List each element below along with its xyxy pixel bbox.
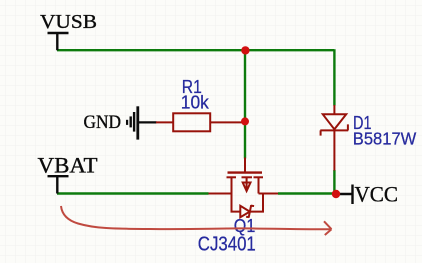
schottky cathode bar — [320, 124, 348, 135]
gate pin — [244, 158, 246, 173]
gate plate — [228, 171, 263, 173]
svg-text:B5817W: B5817W — [353, 128, 417, 148]
wire VBAT rail — [57, 192, 209, 194]
annotation current-path arrow — [61, 206, 332, 235]
channel bar middle — [242, 176, 253, 178]
wire VUSB rail — [57, 49, 334, 51]
node junction at VCC — [332, 190, 340, 198]
svg-text:CJ3401: CJ3401 — [198, 233, 256, 255]
cathode pin — [333, 131, 335, 171]
body diode triangle — [240, 206, 250, 217]
body diode loop — [232, 194, 264, 212]
wire right drop to D1 anode — [333, 49, 335, 105]
svg-text:GND: GND — [84, 113, 122, 133]
port VBAT symbol — [48, 176, 69, 193]
node junction at VUSB/mid — [241, 46, 249, 54]
transistor Q1 — [209, 158, 279, 219]
ground — [127, 106, 156, 139]
diode D1 — [320, 105, 348, 171]
svg-text:VBAT: VBAT — [38, 152, 99, 177]
svg-text:VUSB: VUSB — [40, 11, 97, 33]
port VUSB symbol — [48, 33, 69, 50]
node junction at R1/gate — [241, 117, 249, 125]
channel bar right — [254, 176, 264, 178]
port VCC symbol — [336, 185, 353, 205]
body diode cathode — [246, 205, 254, 219]
source lead — [258, 177, 260, 193]
resistor R1 — [156, 113, 242, 131]
drain lead — [231, 177, 233, 193]
substrate stem and arrow — [246, 177, 248, 190]
wire D1 cathode to VCC node — [333, 170, 335, 194]
source pin — [259, 193, 279, 195]
diode triangle — [323, 114, 346, 129]
wire VCC rail — [278, 192, 336, 194]
anode pin — [333, 105, 335, 114]
channel bar left — [227, 176, 237, 178]
wire mid drop to R1 and gate — [244, 50, 246, 158]
drain pin — [209, 193, 232, 195]
svg-text:VCC: VCC — [355, 181, 399, 206]
svg-text:10k: 10k — [181, 93, 210, 113]
